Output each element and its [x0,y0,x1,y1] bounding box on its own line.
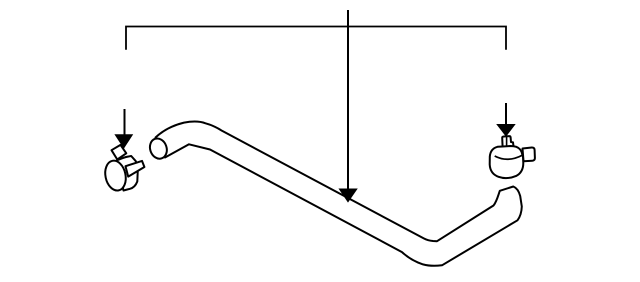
hose body [156,122,522,266]
left arrowhead [115,135,132,148]
right clamp ear split [506,137,508,146]
right clamp neck [502,136,513,147]
center leader line [347,10,349,190]
left clamp right tab [126,161,145,177]
right clamp band rim [495,155,523,159]
right clamp body [490,146,524,178]
callout bracket [126,27,506,50]
center arrowhead [339,189,356,202]
right arrowhead [497,125,515,136]
hose left opening [147,136,169,161]
left clamp front face [103,159,129,193]
right clamp side tab [523,147,535,161]
left leader line [124,109,126,137]
right leader line [505,103,507,126]
left clamp upper tab [112,145,127,160]
left clamp body side [117,156,138,191]
